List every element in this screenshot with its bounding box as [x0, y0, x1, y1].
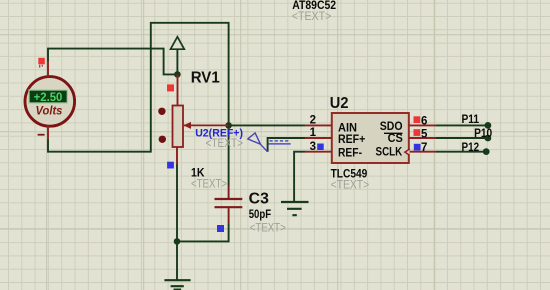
voltage probe U2(REF+) flag [248, 133, 268, 152]
svg-text:P11: P11 [462, 112, 480, 126]
wire: RV1 bottom to ground junction [176, 164, 178, 241]
power terminal stem [176, 49, 178, 74]
capacitor C3 bottom pin [228, 208, 230, 224]
ground symbol at REF- [281, 202, 309, 215]
svg-text:<TEXT>: <TEXT> [331, 179, 370, 191]
resistor RV1 body [173, 106, 184, 148]
voltmeter top pin [47, 61, 49, 78]
wire: wiper node to U2 AIN [229, 124, 306, 126]
pin state square (red) RV1 top [167, 84, 174, 91]
wire: voltmeter - loop (down, right, up, along top, down right side to capacitor) [48, 23, 229, 187]
svg-text:Volts: Volts [36, 105, 63, 117]
pin state square (blue) C3 bottom [217, 225, 224, 232]
pin state square (blue) pin 3 [317, 144, 324, 151]
U2 pin 1 stub [305, 137, 331, 139]
wire: REF- pin to ground [294, 152, 305, 202]
svg-text:U2: U2 [330, 95, 349, 112]
capacitor C3 top pin [228, 186, 230, 198]
svg-text:<TEXT>: <TEXT> [292, 11, 332, 23]
svg-text:3: 3 [310, 141, 316, 153]
node junction RV1/C3/ground [174, 238, 181, 245]
U2 pin 3 stub [305, 151, 331, 153]
svg-text:REF-: REF- [338, 145, 362, 159]
RV1 adjust button up [158, 108, 165, 115]
pin state square (red) pin 6 [414, 116, 421, 123]
svg-text:<TEXT>: <TEXT> [206, 138, 244, 150]
wire: CS to P10 [435, 137, 488, 139]
svg-text:50pF: 50pF [249, 207, 271, 221]
svg-text:REF+: REF+ [338, 132, 365, 146]
terminal node P10 [485, 135, 492, 142]
RV1 wiper arrow [184, 124, 229, 126]
voltage probe baseline [268, 143, 290, 145]
svg-text:C3: C3 [249, 190, 270, 207]
svg-text:5: 5 [421, 128, 428, 140]
svg-text:<TEXT>: <TEXT> [191, 179, 227, 191]
U2 clock arrow on SCLK [405, 149, 410, 155]
terminal node P11 [485, 122, 492, 129]
capacitor C3 plates [215, 199, 243, 207]
wire: ground junction to C3 bottom [177, 224, 229, 241]
wire: voltmeter + terminal to VCC junction [48, 49, 175, 75]
svg-text:SCLK: SCLK [376, 145, 403, 159]
wire: SCLK to P12 [435, 151, 486, 153]
svg-text:P10: P10 [474, 126, 492, 140]
RV1 adjust button down [159, 136, 166, 143]
svg-text:P12: P12 [462, 140, 480, 154]
svg-text:2: 2 [310, 114, 316, 126]
wire: junction down to ground symbol [176, 241, 178, 280]
voltmeter body [25, 77, 75, 127]
CS overline [384, 132, 403, 134]
terminal node P12 [483, 148, 490, 155]
svg-text:<TEXT>: <TEXT> [250, 222, 286, 234]
pin state square (blue) pin 7 [414, 144, 421, 151]
wire: REF+ pin to probe point [268, 138, 306, 152]
ground symbol bottom [164, 280, 190, 289]
U2 pin 2 stub [305, 124, 331, 126]
power terminal VCC arrow [171, 37, 185, 49]
U2 pin 7 stub [409, 151, 435, 153]
pin state square (blue) RV1 bottom [167, 162, 174, 169]
voltmeter display [29, 90, 67, 103]
voltmeter bottom pin [47, 125, 49, 140]
U2 pin 5 stub [409, 137, 435, 139]
wire: SDO to P11 [435, 124, 488, 126]
svg-text:+2.50: +2.50 [34, 90, 63, 104]
svg-text:6: 6 [421, 116, 427, 128]
svg-text:1: 1 [310, 127, 317, 139]
node junction wiper/AIN [225, 122, 232, 129]
voltmeter minus mark [38, 134, 45, 136]
svg-text:1K: 1K [191, 165, 205, 179]
pin state square (red) voltmeter + [38, 58, 45, 65]
op-amp U2 TLC549 body [332, 113, 409, 163]
voltage probe dashes [270, 140, 290, 142]
node junction at VCC / RV1 top [174, 71, 181, 78]
svg-text:7: 7 [421, 142, 427, 154]
pin state square (red) pin 5 [414, 129, 421, 136]
svg-text:RV1: RV1 [191, 69, 220, 86]
resistor RV1 top pin [177, 74, 179, 105]
voltmeter plus mark remnant [40, 65, 43, 68]
U2 pin 6 stub [409, 124, 435, 126]
resistor RV1 bottom pin [176, 147, 178, 164]
